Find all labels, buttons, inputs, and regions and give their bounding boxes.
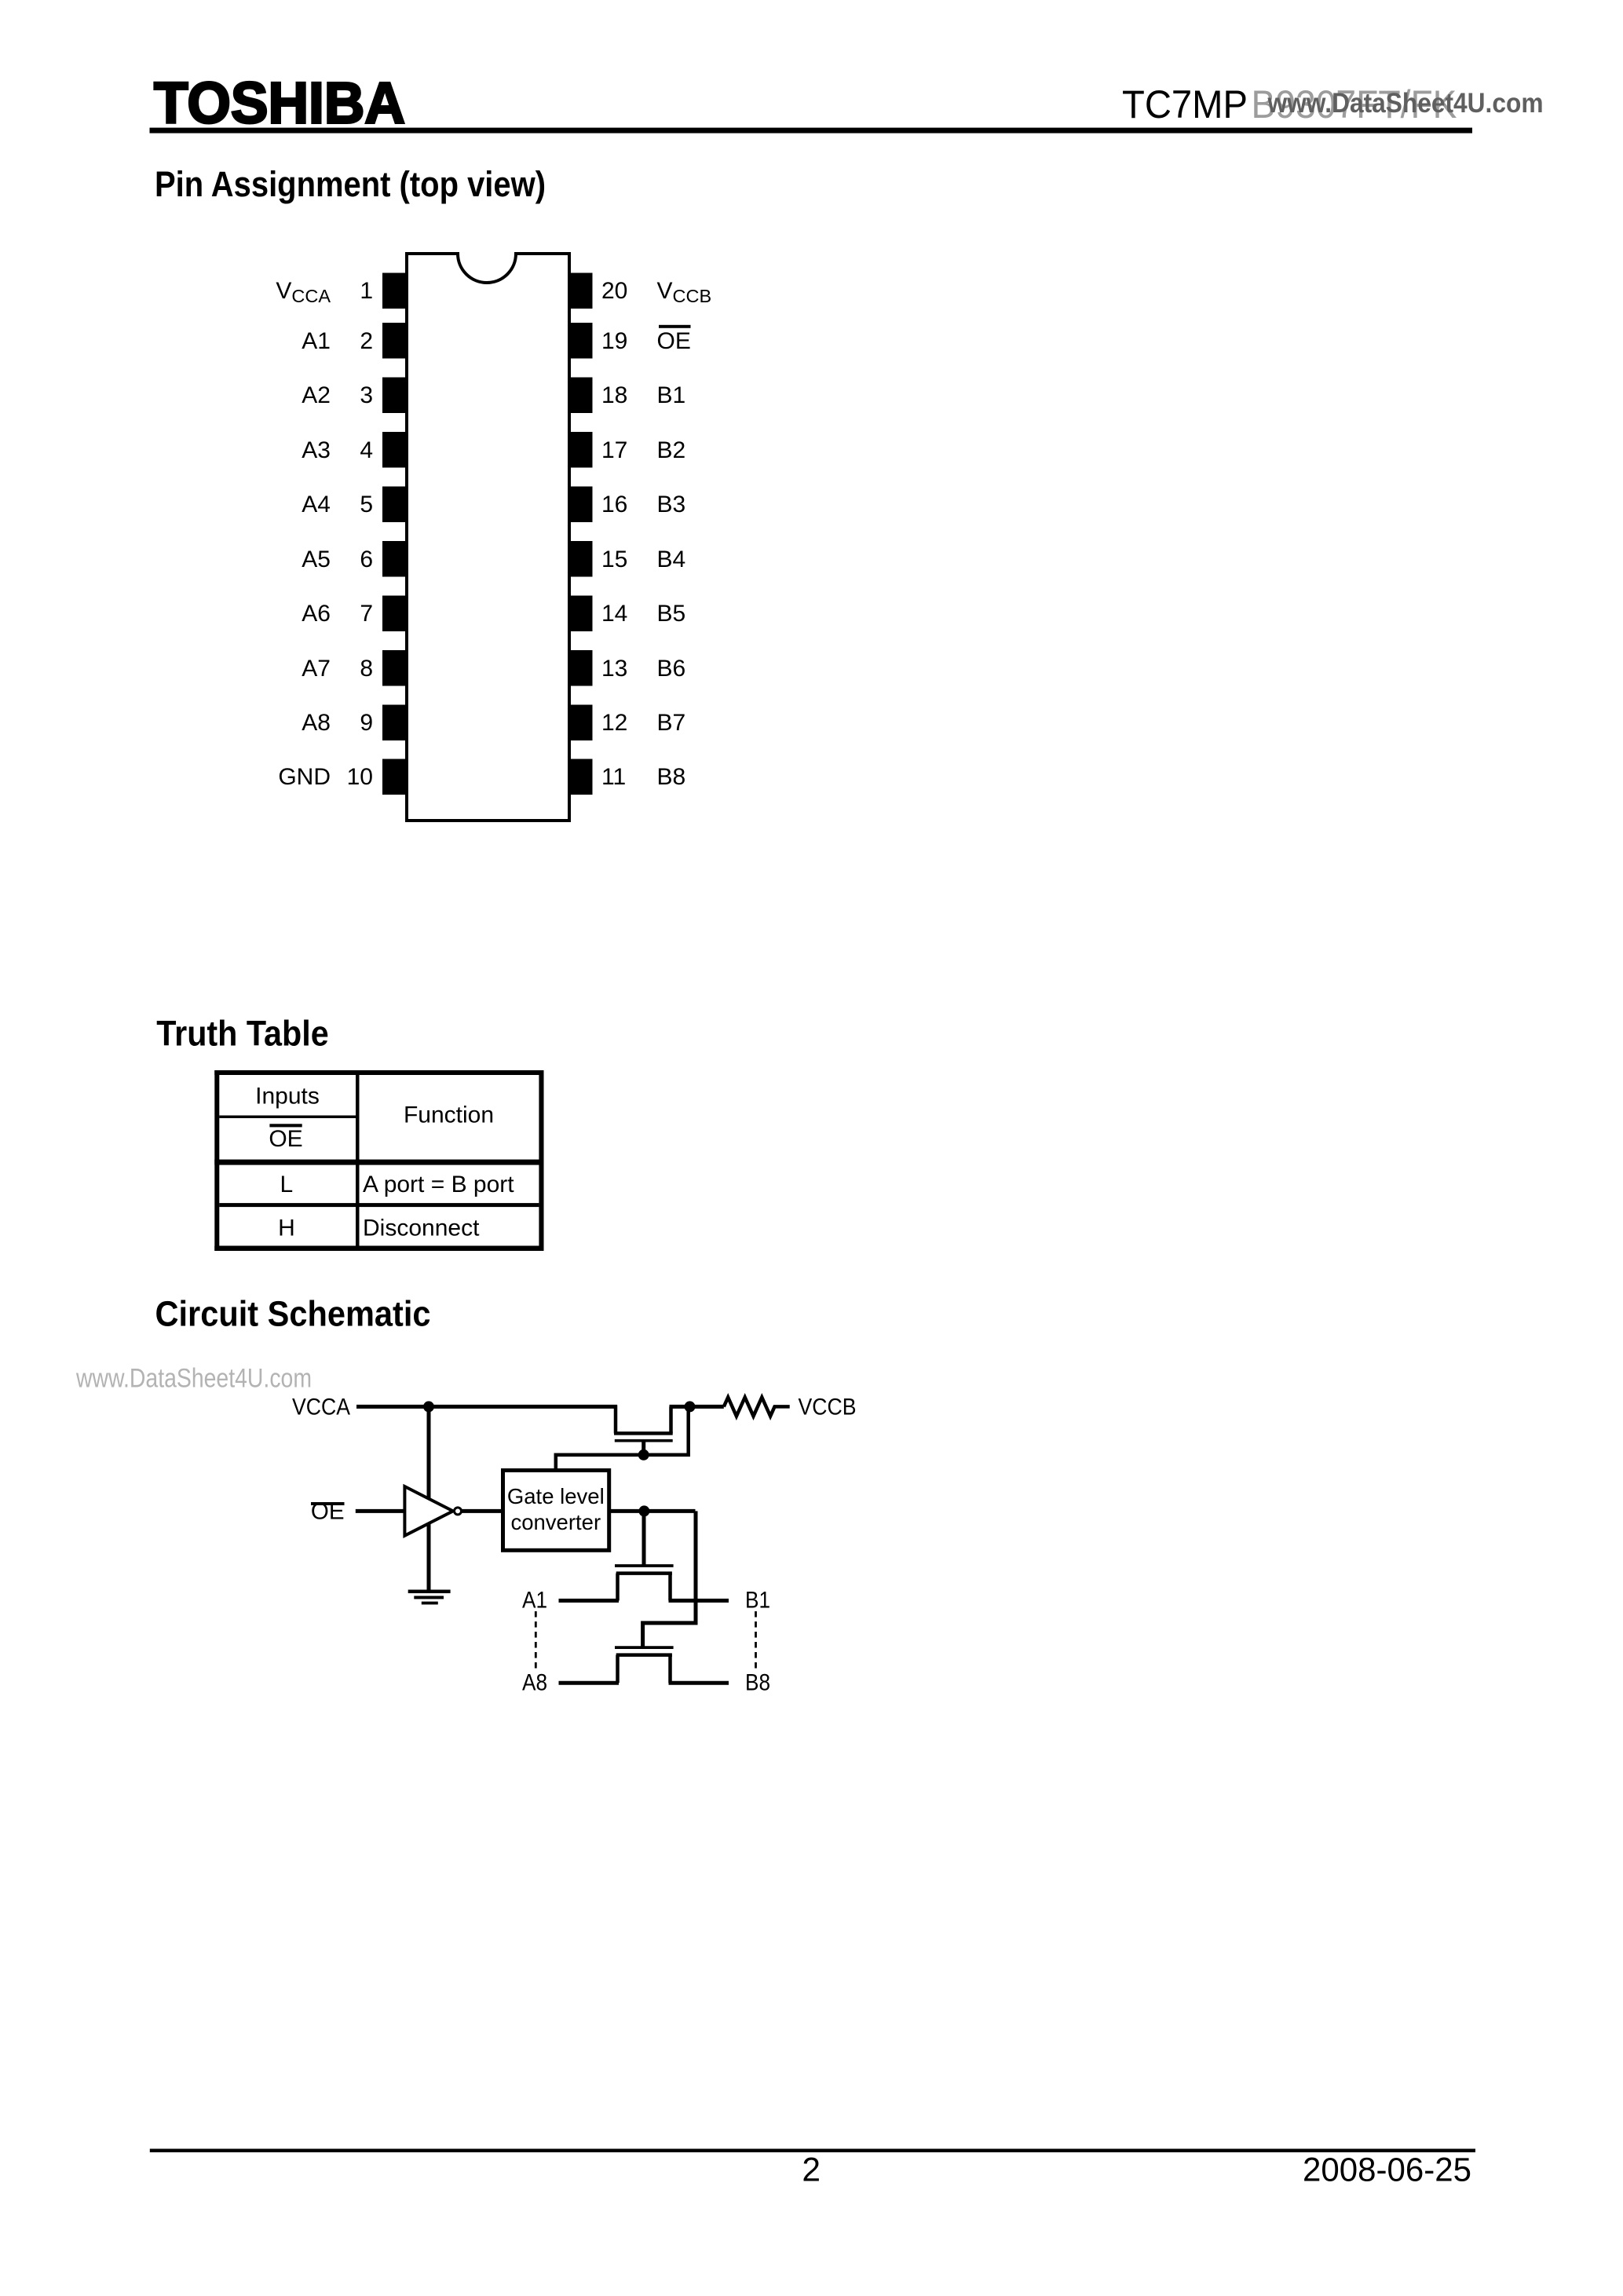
svg-text:B6: B6 [657,656,686,682]
svg-text:B5: B5 [657,601,686,627]
wire Q1 right leg to resistor [670,1405,724,1409]
transistor Q3 right leg [668,1655,672,1684]
svg-text:B3: B3 [657,492,686,517]
svg-text:13: 13 [601,656,627,682]
dashed line A1 to A8 [535,1611,537,1671]
svg-text:Gate level: Gate level [507,1484,605,1508]
pin 3 (left) [382,378,405,414]
svg-text:Pin Assignment (top view): Pin Assignment (top view) [155,164,546,204]
wire A8 [559,1681,620,1685]
IC package body DIP-20 with notch [407,254,569,821]
svg-text:B2: B2 [657,437,686,463]
svg-text:Inputs: Inputs [255,1084,320,1110]
pin 14 (right) [571,596,593,632]
svg-text:16: 16 [601,492,627,517]
svg-text:www.DataSheet4U.com: www.DataSheet4U.com [1267,88,1544,119]
resistor R1 [724,1398,790,1417]
svg-text:H: H [278,1216,295,1241]
ground symbol [408,1590,451,1605]
pin 5 (left) [382,487,405,523]
svg-text:L: L [280,1172,293,1197]
svg-text:4: 4 [360,437,373,463]
transistor Q2 channel bar [616,1571,672,1575]
pin 6 (left) [382,541,405,577]
svg-text:A5: A5 [302,547,331,572]
transistor Q2 right leg [668,1574,672,1601]
truth table divider between rows L and H [219,1203,539,1207]
pin 11 (right) [571,759,593,795]
pin 9 (left) [382,705,405,741]
svg-text:17: 17 [601,437,627,463]
pin 10 (left) [382,759,405,795]
svg-text:B4: B4 [657,547,686,572]
transistor Q1 right leg [669,1406,673,1433]
svg-text:Truth Table: Truth Table [156,1014,329,1054]
svg-text:1: 1 [360,278,373,304]
junction dot VCCB rail [685,1401,696,1412]
svg-text:B1: B1 [745,1588,770,1614]
gate level converter box U2 [503,1471,609,1551]
svg-text:18: 18 [601,382,627,408]
transistor Q1 gate stem [642,1441,645,1455]
pin 8 (left) [382,650,405,686]
svg-text:3: 3 [360,382,373,408]
svg-text:9: 9 [360,710,373,736]
truth table divider under Inputs (col 1 only) [219,1116,356,1119]
svg-text:converter: converter [510,1510,601,1534]
junction dot on VCCA rail [423,1401,434,1412]
truth table column divider [356,1075,360,1246]
svg-text:11: 11 [601,764,626,790]
svg-text:A1: A1 [302,328,331,354]
svg-text:5: 5 [360,492,373,517]
transistor Q3 left leg [616,1655,620,1684]
svg-text:10: 10 [347,764,373,790]
svg-text:A8: A8 [522,1670,547,1696]
svg-text:VCCB: VCCB [799,1395,857,1420]
svg-text:Circuit Schematic: Circuit Schematic [155,1294,431,1334]
wire B1 [669,1599,729,1603]
junction dot gate wire [638,1450,649,1461]
wire VCCA rail to inverter/ground vertical [427,1406,431,1591]
footer rule [150,2149,1475,2153]
svg-text:TOSHIBA: TOSHIBA [154,70,405,136]
svg-text:19: 19 [601,328,627,354]
wire long vertical to Q3 gate [643,1511,696,1647]
pin 15 (right) [571,541,593,577]
svg-text:www.DataSheet4U.com: www.DataSheet4U.com [75,1363,312,1393]
svg-text:20: 20 [601,278,627,304]
svg-text:B8: B8 [657,764,686,790]
pin 4 (left) [382,432,405,468]
truth table outer border left [214,1070,219,1251]
wire gate level converter output right [609,1509,696,1513]
pin 13 (right) [571,650,593,686]
transistor Q1 gate line [615,1439,673,1442]
svg-text:A1: A1 [522,1588,547,1614]
svg-text:Disconnect: Disconnect [363,1216,480,1241]
pin 17 (right) [571,432,593,468]
svg-text:Function: Function [404,1102,494,1128]
truth table thick divider under header [214,1160,543,1165]
transistor Q2 gate line [615,1564,674,1567]
svg-text:A8: A8 [302,710,331,736]
svg-text:2: 2 [802,2152,821,2189]
svg-text:A port = B port: A port = B port [363,1172,514,1197]
transistor Q3 channel bar [616,1653,672,1657]
svg-text:14: 14 [601,601,627,627]
OE overline (truth table) [269,1124,302,1127]
pin 18 (right) [571,378,593,414]
header rule [150,128,1473,133]
svg-text:6: 6 [360,547,373,572]
svg-text:B7: B7 [657,710,686,736]
truth table outer border bottom [214,1246,543,1252]
wire VCCA rail [356,1405,617,1409]
inverter U1 output bubble [455,1508,462,1515]
svg-text:B8: B8 [745,1670,770,1696]
truth table outer border top [214,1070,543,1075]
svg-text:2008-06-25: 2008-06-25 [1303,2152,1471,2189]
pin 2 (left) [382,323,405,359]
svg-text:OE: OE [657,328,691,354]
pin 16 (right) [571,487,593,523]
wire OE to inverter [356,1509,405,1513]
svg-text:A2: A2 [302,382,331,408]
svg-text:TC7MP: TC7MP [1122,82,1248,126]
transistor Q1 channel bar [614,1431,673,1435]
svg-text:15: 15 [601,547,627,572]
transistor Q3 gate line [615,1646,674,1649]
pin 19 (right) [571,323,593,359]
svg-text:VCCA: VCCA [292,1395,350,1420]
svg-text:7: 7 [360,601,373,627]
svg-text:B1: B1 [657,382,686,408]
truth table outer border right [539,1070,543,1251]
svg-text:8: 8 [360,656,373,682]
svg-text:A7: A7 [302,656,331,682]
wire inverter to gate level converter [462,1509,503,1513]
svg-text:OE: OE [269,1126,302,1152]
svg-text:A3: A3 [302,437,331,463]
svg-text:A4: A4 [302,492,331,517]
wire gate-level-converter top to Q1 gate [556,1406,689,1470]
wire to transistor Q2 gate [642,1511,646,1566]
transistor Q1 left leg [614,1405,618,1433]
svg-text:12: 12 [601,710,627,736]
pin 12 (right) [571,705,593,741]
pin 7 (left) [382,596,405,632]
wire A1 [559,1599,620,1603]
svg-text:GND: GND [278,764,331,790]
junction dot on output wire [638,1505,649,1516]
dashed line B1 to B8 [755,1611,757,1669]
OE overline (pin 19) [659,325,691,328]
wire B8 [669,1681,729,1685]
transistor Q2 left leg [616,1574,620,1601]
inverter U1 (triangle) [404,1486,453,1536]
svg-text:2: 2 [360,328,373,354]
pin 20 (right) [571,273,593,309]
pin 1 (left) [382,273,405,309]
svg-text:A6: A6 [302,601,331,627]
